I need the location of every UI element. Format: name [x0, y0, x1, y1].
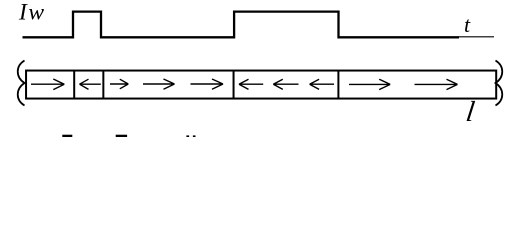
arrow left cell2: [80, 79, 101, 89]
cell divider 2: [102, 71, 104, 99]
svg-text:Iw: Iw: [18, 0, 46, 26]
arrow right cell3 a: [110, 79, 128, 89]
right torn-end squiggle: [496, 61, 503, 106]
arrow right cell5 b: [415, 79, 458, 89]
waveform trace (two rectangular pulses): [23, 12, 460, 38]
arrow left cell4 c: [310, 79, 334, 89]
time axis thin extension: [459, 36, 494, 38]
arrow left cell4 b: [273, 79, 298, 89]
tape outline: [26, 71, 496, 99]
svg-text:t: t: [464, 12, 471, 37]
caption fragment mark 4: [193, 135, 196, 137]
caption fragment mark 2: [116, 135, 127, 137]
caption fragment mark 3: [186, 135, 189, 137]
cell divider 3: [233, 71, 235, 99]
caption fragment mark 1: [62, 135, 72, 137]
cell divider 1: [73, 71, 75, 99]
cell divider 4: [337, 71, 339, 99]
arrow left cell4 a: [239, 79, 263, 89]
arrow right cell3 b: [143, 79, 175, 89]
arrow right cell3 c: [191, 79, 224, 89]
arrow right cell1: [31, 79, 64, 90]
arrow right cell5 a: [349, 79, 390, 89]
left torn-end squiggle: [18, 61, 25, 106]
